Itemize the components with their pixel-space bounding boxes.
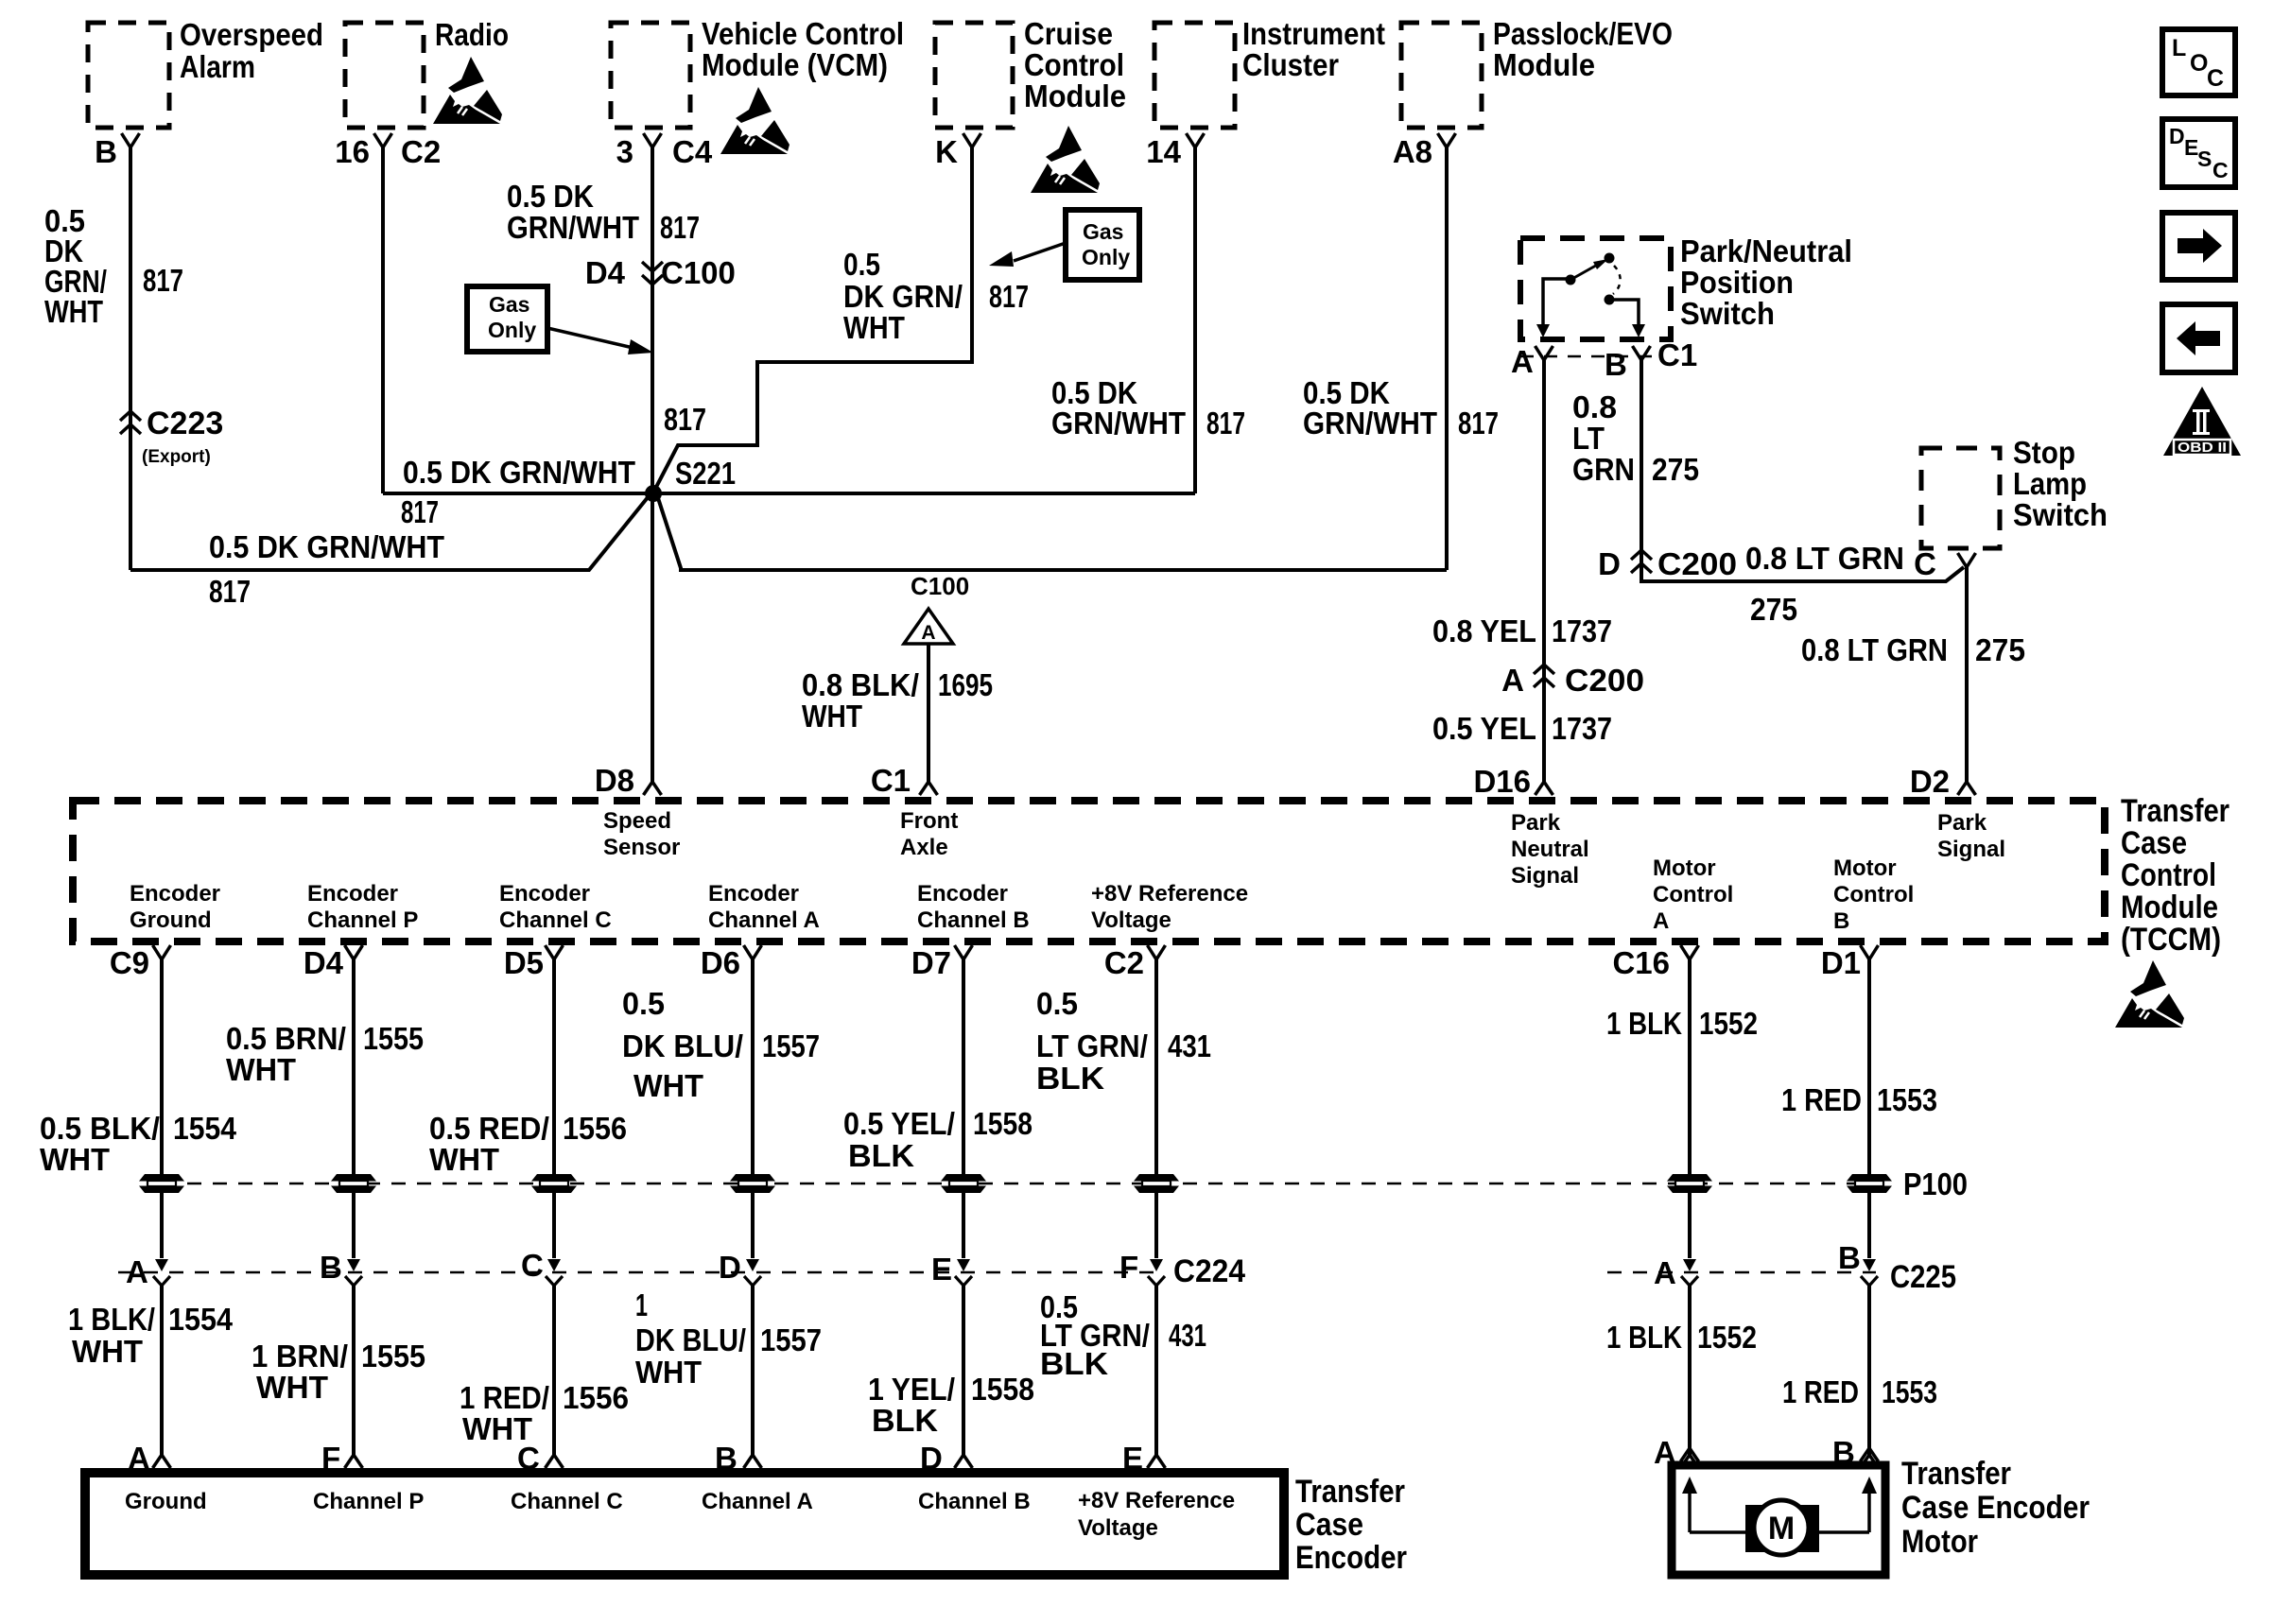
svg-text:C: C xyxy=(517,1441,540,1476)
svg-text:B: B xyxy=(715,1441,737,1476)
svg-text:DK BLU/: DK BLU/ xyxy=(622,1028,743,1063)
svg-text:D: D xyxy=(2169,124,2185,148)
svg-text:1 BLK: 1 BLK xyxy=(1606,1320,1682,1355)
svg-text:Encoder: Encoder xyxy=(708,881,799,907)
connector C200 A xyxy=(1534,665,1554,687)
pin K of Cruise Control Module xyxy=(963,133,981,147)
svg-text:F: F xyxy=(1119,1250,1138,1285)
Transfer Case Encoder Motor box xyxy=(1672,1465,1885,1575)
gas only box left xyxy=(467,286,547,352)
wire park/neutral A down to D16 xyxy=(1542,360,1546,782)
svg-text:0.5: 0.5 xyxy=(622,986,665,1021)
svg-text:C16: C16 xyxy=(1612,945,1670,980)
svg-text:1737: 1737 xyxy=(1552,613,1612,648)
svg-text:D6: D6 xyxy=(701,945,740,980)
svg-text:Switch: Switch xyxy=(2013,497,2108,532)
wire passlock A8 down xyxy=(1445,147,1449,570)
svg-text:431: 431 xyxy=(1168,1028,1211,1063)
svg-text:Motor: Motor xyxy=(1901,1524,1978,1560)
svg-text:Gas: Gas xyxy=(489,292,529,317)
wire B-overspeed to lower bus xyxy=(129,147,132,570)
connector P100 pass-through at x796 xyxy=(730,1174,775,1182)
svg-text:C2: C2 xyxy=(401,134,441,169)
svg-text:Neutral: Neutral xyxy=(1511,837,1589,862)
svg-text:0.8 YEL: 0.8 YEL xyxy=(1432,613,1536,648)
switch contact lower xyxy=(1605,295,1615,305)
svg-text:Stop: Stop xyxy=(2013,435,2075,470)
svg-text:C: C xyxy=(2212,158,2229,182)
connector P100 pass-through at x171 xyxy=(139,1174,184,1182)
park/neutral position switch box xyxy=(1520,238,1671,339)
module box Overspeed Alarm xyxy=(88,23,169,128)
svg-text:Gas: Gas xyxy=(1083,219,1123,244)
svg-text:D5: D5 xyxy=(504,945,544,980)
svg-text:C9: C9 xyxy=(110,945,149,980)
svg-text:C1: C1 xyxy=(871,763,911,798)
svg-text:A8: A8 xyxy=(1393,134,1432,169)
junction S221 xyxy=(645,485,662,502)
icon box LOC xyxy=(2162,29,2235,95)
svg-text:WHT: WHT xyxy=(72,1334,143,1369)
svg-text:S221: S221 xyxy=(675,456,736,491)
svg-text:F: F xyxy=(321,1441,340,1476)
svg-text:0.5 DK GRN/WHT: 0.5 DK GRN/WHT xyxy=(209,529,444,564)
svg-text:C100: C100 xyxy=(911,572,969,600)
connector line P100 xyxy=(162,1183,1870,1185)
svg-text:C4: C4 xyxy=(672,134,713,169)
svg-text:BLK: BLK xyxy=(872,1403,938,1438)
connector line C1 under switch xyxy=(1520,355,1652,358)
svg-text:Overspeed: Overspeed xyxy=(180,17,323,52)
svg-text:0.5 RED/: 0.5 RED/ xyxy=(429,1111,549,1146)
switch contact upper xyxy=(1605,253,1615,264)
connector C100 front axle triangle xyxy=(904,609,953,644)
svg-text:0.5 DK GRN/WHT: 0.5 DK GRN/WHT xyxy=(403,455,635,490)
svg-text:817: 817 xyxy=(660,210,700,245)
wire instrument 14 down xyxy=(1193,147,1197,493)
connector P100 pass-through at x586 xyxy=(531,1174,577,1182)
module box Instrument Cluster xyxy=(1154,23,1235,128)
svg-text:B: B xyxy=(1605,347,1627,382)
svg-text:0.8 LT GRN: 0.8 LT GRN xyxy=(1801,632,1948,667)
icon box right arrow xyxy=(2162,213,2235,280)
svg-text:OBD II: OBD II xyxy=(2178,440,2227,456)
pin 16 / C2 of Radio xyxy=(374,133,392,147)
svg-text:GRN/WHT: GRN/WHT xyxy=(507,210,639,245)
svg-text:Voltage: Voltage xyxy=(1078,1515,1158,1541)
wire radio 16 down xyxy=(381,147,385,493)
connector C200 D xyxy=(1631,550,1652,573)
svg-text:Module: Module xyxy=(1493,47,1595,82)
svg-text:L: L xyxy=(2172,35,2186,61)
pin D2 Park Signal xyxy=(1958,782,1976,795)
pin C1 Front Axle xyxy=(920,782,938,795)
connector P100 pass-through at x1223 xyxy=(1134,1174,1179,1182)
svg-text:0.5 BRN/: 0.5 BRN/ xyxy=(226,1021,346,1056)
pin A8 of Passlock/EVO Module xyxy=(1438,133,1456,147)
svg-text:A: A xyxy=(1511,344,1534,379)
svg-text:817: 817 xyxy=(989,279,1029,314)
svg-text:1554: 1554 xyxy=(168,1302,234,1337)
pin B / C1 of park/neutral switch xyxy=(1633,346,1651,360)
svg-text:D: D xyxy=(1598,546,1621,581)
svg-text:0.8 BLK/: 0.8 BLK/ xyxy=(802,667,919,702)
wire Encoder Channel P D4 column xyxy=(345,945,363,959)
icon box left arrow xyxy=(2162,304,2235,372)
wire lower 817 bus left segment xyxy=(130,496,649,570)
svg-text:C: C xyxy=(521,1248,544,1283)
svg-text:817: 817 xyxy=(1458,406,1499,441)
svg-text:1556: 1556 xyxy=(563,1111,627,1146)
svg-text:1554: 1554 xyxy=(173,1111,237,1146)
ESD symbol at Cruise Control Module xyxy=(1031,126,1100,193)
svg-text:A: A xyxy=(126,1254,148,1289)
svg-text:Position: Position xyxy=(1680,265,1794,300)
svg-text:Case: Case xyxy=(1295,1507,1363,1543)
connector line C224 xyxy=(118,1271,1163,1274)
svg-text:275: 275 xyxy=(1750,592,1797,627)
svg-text:D2: D2 xyxy=(1910,764,1950,799)
svg-text:Control: Control xyxy=(1653,882,1733,907)
svg-text:Park: Park xyxy=(1937,810,1987,836)
svg-text:Radio: Radio xyxy=(435,17,509,52)
svg-text:Channel A: Channel A xyxy=(702,1489,813,1514)
svg-text:Motor: Motor xyxy=(1653,855,1716,881)
svg-text:1557: 1557 xyxy=(762,1028,820,1063)
TCCM dashed box xyxy=(73,801,2105,942)
svg-text:+8V Reference: +8V Reference xyxy=(1078,1488,1235,1513)
svg-text:Motor: Motor xyxy=(1833,855,1897,881)
svg-text:Channel P: Channel P xyxy=(307,907,418,933)
svg-text:Case Encoder: Case Encoder xyxy=(1901,1490,2090,1526)
svg-text:Encoder: Encoder xyxy=(307,881,398,907)
svg-text:GRN/WHT: GRN/WHT xyxy=(1051,406,1186,441)
connector P100 pass-through at x1787 xyxy=(1667,1174,1712,1182)
wire park/neutral B down to C200 xyxy=(1641,360,1964,581)
svg-text:Transfer: Transfer xyxy=(1295,1474,1405,1510)
svg-text:0.8 LT GRN: 0.8 LT GRN xyxy=(1745,541,1904,576)
svg-text:1 RED/: 1 RED/ xyxy=(460,1380,549,1415)
svg-text:DK GRN/: DK GRN/ xyxy=(843,279,963,314)
wire cruise K staircase to S221 xyxy=(653,147,972,492)
connector P100 pass-through at x1019 xyxy=(941,1174,986,1182)
svg-text:1 BLK: 1 BLK xyxy=(1606,1006,1682,1041)
wire S221 horizontal bus xyxy=(383,492,1195,495)
ESD symbol at Radio xyxy=(433,57,502,124)
svg-text:817: 817 xyxy=(209,574,251,609)
svg-text:P100: P100 xyxy=(1903,1166,1968,1201)
svg-text:(Export): (Export) xyxy=(142,447,211,467)
svg-text:Control: Control xyxy=(1833,882,1914,907)
svg-text:Module: Module xyxy=(2121,890,2218,925)
svg-text:Encoder: Encoder xyxy=(917,881,1008,907)
pin D16 Park Neutral Signal xyxy=(1536,782,1553,795)
pin C of stop lamp switch xyxy=(1958,553,1976,567)
svg-text:Signal: Signal xyxy=(1937,837,2005,862)
svg-text:Voltage: Voltage xyxy=(1091,907,1171,933)
svg-text:Lamp: Lamp xyxy=(2013,466,2087,501)
svg-text:Signal: Signal xyxy=(1511,863,1579,889)
svg-text:Module (VCM): Module (VCM) xyxy=(702,47,888,82)
svg-text:D: D xyxy=(719,1250,741,1285)
svg-text:WHT: WHT xyxy=(44,294,103,329)
svg-text:WHT: WHT xyxy=(226,1052,296,1087)
svg-text:Park/Neutral: Park/Neutral xyxy=(1680,233,1852,268)
wire stop lamp C down to D2 xyxy=(1965,567,1969,782)
svg-text:B: B xyxy=(1832,1435,1855,1470)
svg-text:Channel A: Channel A xyxy=(708,907,820,933)
svg-text:Only: Only xyxy=(1082,245,1130,269)
svg-text:Transfer: Transfer xyxy=(2121,793,2230,829)
svg-text:B: B xyxy=(320,1250,342,1285)
pin A of park/neutral switch xyxy=(1536,346,1553,360)
svg-text:3: 3 xyxy=(616,134,633,169)
stop lamp switch box xyxy=(1921,448,2000,548)
motor internal wire B xyxy=(1867,1488,1871,1532)
svg-text:Case: Case xyxy=(2121,825,2187,861)
pin 3 / C4 of VCM xyxy=(644,133,662,147)
svg-text:B: B xyxy=(1838,1240,1861,1275)
svg-text:Vehicle Control: Vehicle Control xyxy=(702,16,904,51)
svg-text:1737: 1737 xyxy=(1552,711,1612,746)
svg-text:1552: 1552 xyxy=(1699,1006,1758,1041)
svg-text:LT: LT xyxy=(1572,421,1605,456)
svg-text:GRN: GRN xyxy=(1572,452,1635,487)
switch dashed arc xyxy=(1613,266,1621,294)
svg-text:Only: Only xyxy=(488,318,536,342)
svg-text:WHT: WHT xyxy=(802,699,862,734)
svg-text:1555: 1555 xyxy=(361,1339,425,1373)
svg-text:275: 275 xyxy=(1975,632,2025,667)
svg-text:Switch: Switch xyxy=(1680,296,1775,331)
wire Encoder Channel B D7 column xyxy=(955,945,973,959)
svg-text:Cluster: Cluster xyxy=(1242,47,1339,82)
arrow from gas only left xyxy=(547,328,637,349)
svg-text:A: A xyxy=(1653,908,1669,934)
wire +8V Reference C2 column xyxy=(1148,945,1166,959)
switch wire A side xyxy=(1543,279,1569,325)
svg-text:0.5 BLK/: 0.5 BLK/ xyxy=(40,1111,160,1146)
svg-text:D: D xyxy=(920,1441,943,1476)
svg-text:B: B xyxy=(1833,908,1849,934)
svg-text:Transfer: Transfer xyxy=(1901,1456,2011,1492)
svg-text:Channel B: Channel B xyxy=(918,1489,1031,1514)
svg-text:817: 817 xyxy=(1206,406,1245,441)
svg-text:1 BRN/: 1 BRN/ xyxy=(252,1339,348,1373)
svg-text:Instrument: Instrument xyxy=(1242,16,1385,51)
svg-text:C1: C1 xyxy=(1657,337,1697,372)
switch pivot xyxy=(1566,275,1576,285)
svg-text:C2: C2 xyxy=(1104,945,1144,980)
motor internal horizontal wire xyxy=(1690,1530,1747,1534)
connector C223 on overspeed wire xyxy=(120,411,141,434)
svg-text:Park: Park xyxy=(1511,810,1561,836)
connector P100 pass-through at x374 xyxy=(331,1174,376,1182)
svg-text:WHT: WHT xyxy=(40,1142,110,1177)
svg-text:DK BLU/: DK BLU/ xyxy=(635,1322,746,1357)
svg-text:817: 817 xyxy=(664,402,706,437)
svg-text:C100: C100 xyxy=(661,255,736,290)
svg-text:WHT: WHT xyxy=(633,1068,703,1103)
svg-text:WHT: WHT xyxy=(843,310,905,345)
svg-text:Speed: Speed xyxy=(603,808,671,834)
svg-text:BLK: BLK xyxy=(1036,1061,1104,1096)
svg-text:14: 14 xyxy=(1146,134,1181,169)
svg-text:1552: 1552 xyxy=(1697,1320,1757,1355)
svg-text:C224: C224 xyxy=(1173,1253,1245,1289)
motor M symbol xyxy=(1745,1505,1819,1552)
wire Encoder Channel C D5 column xyxy=(546,945,564,959)
svg-text:0.8: 0.8 xyxy=(1572,389,1617,424)
Transfer Case Encoder box xyxy=(85,1473,1284,1575)
svg-text:WHT: WHT xyxy=(429,1142,499,1177)
svg-text:1 RED: 1 RED xyxy=(1782,1374,1859,1409)
svg-text:D4: D4 xyxy=(585,255,626,290)
svg-text:Alarm: Alarm xyxy=(180,49,255,84)
arrow from gas only right xyxy=(1014,243,1066,261)
svg-text:C223: C223 xyxy=(147,406,223,441)
svg-text:WHT: WHT xyxy=(256,1370,328,1405)
svg-text:Encoder: Encoder xyxy=(130,881,220,907)
svg-text:Ground: Ground xyxy=(130,907,212,933)
svg-text:C200: C200 xyxy=(1657,546,1737,581)
svg-text:1553: 1553 xyxy=(1882,1374,1937,1409)
svg-text:A: A xyxy=(1654,1255,1676,1290)
gas only box right xyxy=(1066,210,1139,280)
module box Radio xyxy=(345,23,424,128)
svg-text:E: E xyxy=(931,1252,952,1287)
svg-text:C: C xyxy=(2207,65,2224,92)
pin 14 of Instrument Cluster xyxy=(1187,133,1205,147)
ESD symbol below TCCM label xyxy=(2115,960,2184,1028)
wire Motor Control A C16 column xyxy=(1681,945,1699,959)
connector P100 pass-through at x1977 xyxy=(1847,1174,1892,1182)
icon OBD II triangle xyxy=(2163,387,2241,456)
svg-text:0.5 DK: 0.5 DK xyxy=(507,179,594,214)
module box Passlock/EVO Module xyxy=(1401,23,1482,128)
svg-text:Cruise: Cruise xyxy=(1024,16,1113,51)
svg-text:0.5 YEL/: 0.5 YEL/ xyxy=(843,1106,955,1141)
svg-text:1 RED: 1 RED xyxy=(1781,1082,1862,1117)
svg-text:K: K xyxy=(935,134,958,169)
wire Motor Control B D1 column xyxy=(1861,945,1879,959)
svg-text:Control: Control xyxy=(1024,47,1124,82)
svg-text:Module: Module xyxy=(1024,78,1126,113)
svg-text:Axle: Axle xyxy=(900,835,948,860)
svg-text:1555: 1555 xyxy=(363,1021,424,1056)
wire front axle to C1 xyxy=(927,644,930,782)
svg-text:B: B xyxy=(95,134,117,169)
ESD symbol at VCM xyxy=(720,87,789,154)
svg-text:Channel P: Channel P xyxy=(313,1489,424,1514)
wire Encoder Ground C9 column xyxy=(153,945,171,959)
svg-text:Channel C: Channel C xyxy=(499,907,612,933)
svg-text:A: A xyxy=(1654,1435,1676,1470)
connector C100 D4 on VCM wire xyxy=(642,262,663,285)
pin B of Overspeed Alarm xyxy=(122,133,140,147)
wire S221 to lower bus right segment xyxy=(658,498,1447,570)
svg-text:E: E xyxy=(1122,1441,1143,1476)
svg-text:Passlock/EVO: Passlock/EVO xyxy=(1493,16,1673,51)
pin D8 Speed Sensor xyxy=(644,782,662,795)
svg-text:431: 431 xyxy=(1169,1318,1206,1353)
svg-text:BLK: BLK xyxy=(1040,1346,1108,1381)
svg-text:Channel C: Channel C xyxy=(511,1489,623,1514)
svg-text:D7: D7 xyxy=(911,945,951,980)
svg-text:0.5 YEL: 0.5 YEL xyxy=(1432,711,1536,746)
wire Encoder Channel A D6 column xyxy=(744,945,762,959)
svg-text:(TCCM): (TCCM) xyxy=(2121,922,2221,958)
svg-text:C225: C225 xyxy=(1890,1259,1956,1295)
svg-text:817: 817 xyxy=(143,263,183,298)
svg-text:1695: 1695 xyxy=(938,667,993,702)
svg-text:Encoder: Encoder xyxy=(1295,1540,1407,1576)
svg-text:0.5: 0.5 xyxy=(1036,986,1078,1021)
svg-text:Ground: Ground xyxy=(125,1489,207,1514)
svg-text:1557: 1557 xyxy=(760,1322,822,1357)
svg-text:C200: C200 xyxy=(1565,663,1644,698)
svg-text:+8V Reference: +8V Reference xyxy=(1091,881,1248,907)
svg-text:Control: Control xyxy=(2121,857,2216,893)
wire VCM 3 down through S221 to D8 xyxy=(651,147,654,782)
svg-text:1558: 1558 xyxy=(973,1106,1032,1141)
svg-text:275: 275 xyxy=(1652,452,1699,487)
svg-text:C: C xyxy=(1914,546,1936,581)
svg-text:1 BLK/: 1 BLK/ xyxy=(68,1302,155,1337)
svg-text:LT GRN/: LT GRN/ xyxy=(1036,1028,1148,1063)
svg-text:16: 16 xyxy=(335,134,370,169)
svg-text:1: 1 xyxy=(635,1287,648,1322)
svg-text:0.5: 0.5 xyxy=(843,247,880,282)
svg-text:O: O xyxy=(2190,50,2208,77)
svg-text:A: A xyxy=(128,1441,150,1476)
svg-text:Encoder: Encoder xyxy=(499,881,590,907)
svg-text:D1: D1 xyxy=(1821,945,1861,980)
svg-text:D8: D8 xyxy=(595,763,634,798)
svg-text:D16: D16 xyxy=(1473,764,1531,799)
svg-text:817: 817 xyxy=(401,494,439,529)
svg-text:1 YEL/: 1 YEL/ xyxy=(868,1372,955,1407)
module box Vehicle Control Module xyxy=(611,23,690,128)
svg-text:1556: 1556 xyxy=(563,1380,629,1415)
svg-text:D4: D4 xyxy=(304,945,344,980)
svg-text:A: A xyxy=(921,622,935,644)
switch wire B side xyxy=(1609,300,1639,325)
connector line C225 xyxy=(1607,1271,1876,1274)
svg-text:S: S xyxy=(2197,147,2212,171)
icon box DESC xyxy=(2162,119,2235,187)
svg-text:Channel B: Channel B xyxy=(917,907,1030,933)
svg-text:WHT: WHT xyxy=(635,1355,702,1390)
svg-text:GRN/WHT: GRN/WHT xyxy=(1303,406,1437,441)
motor internal wire A xyxy=(1688,1488,1692,1532)
switch arm arrow xyxy=(1570,263,1601,280)
svg-text:M: M xyxy=(1768,1511,1795,1546)
module box Cruise Control Module xyxy=(935,23,1013,128)
svg-text:1558: 1558 xyxy=(971,1372,1034,1407)
svg-text:A: A xyxy=(1501,663,1524,698)
svg-text:BLK: BLK xyxy=(848,1138,914,1173)
svg-text:Front: Front xyxy=(900,808,958,834)
svg-text:Sensor: Sensor xyxy=(603,835,680,860)
svg-text:1553: 1553 xyxy=(1877,1082,1937,1117)
